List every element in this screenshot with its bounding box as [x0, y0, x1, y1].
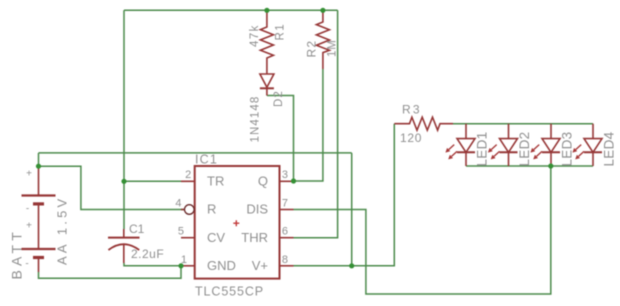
- wire V+ long horizontal from battery to V+ vertical: [39, 152, 352, 154]
- svg-text:8: 8: [282, 254, 288, 266]
- svg-text:C1: C1: [129, 222, 145, 236]
- wire top corner down to THR: [294, 10, 338, 237]
- pin 8 stub: [280, 265, 294, 267]
- pin 6 stub: [280, 237, 294, 239]
- LED1: [457, 124, 475, 166]
- svg-text:5: 5: [178, 226, 184, 238]
- svg-text:LED1: LED1: [475, 132, 490, 167]
- svg-text:CV: CV: [207, 230, 225, 245]
- wire top net TR/THR horizontal: [124, 9, 338, 11]
- svg-text:GND: GND: [207, 258, 236, 273]
- svg-text:D2: D2: [273, 90, 285, 107]
- LED2: [500, 124, 518, 166]
- wire left vertical from top wire to TR node: [123, 10, 125, 181]
- svg-text:TR: TR: [207, 174, 224, 189]
- resistor R1: [260, 10, 273, 74]
- wire battery plus up: [38, 153, 40, 166]
- pin 4 stub: [181, 209, 184, 211]
- svg-text:IC1: IC1: [195, 152, 218, 166]
- wire DIS to LED cathodes: [294, 166, 551, 294]
- wire TR node to pin2: [124, 180, 181, 182]
- wire V+ vertical branch: [351, 153, 353, 266]
- svg-text:1N4148: 1N4148: [250, 96, 262, 143]
- pin 7 stub: [280, 209, 294, 211]
- resistor R3: [394, 117, 453, 130]
- junction dot V+ node: [349, 263, 354, 268]
- pin 4 inversion circle: [185, 205, 195, 215]
- pin 2 stub: [181, 180, 195, 182]
- svg-text:THR: THR: [241, 230, 268, 245]
- svg-text:4: 4: [175, 198, 181, 210]
- svg-text:1M: 1M: [327, 39, 339, 57]
- svg-text:+: +: [26, 221, 32, 232]
- wire reset branch battery to pin4: [39, 166, 185, 209]
- capacitor C1: [123, 229, 125, 238]
- svg-text:AA 1.5V: AA 1.5V: [55, 196, 70, 265]
- junction dot Q node: [291, 178, 296, 183]
- junction dot top R2: [320, 8, 325, 13]
- wire GND return to battery minus: [39, 266, 182, 279]
- pin 1 stub: [181, 265, 195, 267]
- wire V+ pin8 to R3: [294, 124, 395, 266]
- svg-text:Q: Q: [258, 174, 268, 189]
- svg-text:LED2: LED2: [517, 132, 532, 167]
- pin 3 stub: [280, 180, 294, 182]
- svg-text:LED3: LED3: [560, 132, 575, 167]
- svg-text:R1: R1: [275, 23, 287, 41]
- junction dot top R1: [264, 8, 269, 13]
- svg-text:V+: V+: [252, 258, 268, 273]
- svg-text:1: 1: [181, 254, 187, 266]
- svg-text:TLC555CP: TLC555CP: [195, 285, 264, 299]
- pin 5 stub: [181, 237, 195, 239]
- svg-text:R3: R3: [402, 103, 422, 117]
- svg-text:-: -: [25, 259, 28, 270]
- svg-text:R: R: [207, 202, 216, 217]
- svg-text:-: -: [26, 204, 29, 215]
- svg-text:3: 3: [282, 169, 288, 181]
- wire TR node down to C1: [123, 181, 125, 229]
- diode D2: [260, 74, 274, 87]
- IC origin cross: [233, 220, 239, 226]
- wire LED anode rail: [453, 123, 593, 125]
- battery BATT: [38, 166, 40, 195]
- svg-text:LED4: LED4: [602, 131, 617, 166]
- svg-text:2.2uF: 2.2uF: [131, 247, 164, 261]
- svg-text:7: 7: [282, 198, 288, 210]
- svg-text:DIS: DIS: [246, 202, 268, 217]
- junction dot TR node: [121, 179, 126, 184]
- LED3: [542, 124, 560, 166]
- svg-text:BATT: BATT: [9, 228, 25, 280]
- wire LED cathode rail: [466, 165, 593, 167]
- LED4: [584, 124, 602, 166]
- svg-text:47k: 47k: [249, 24, 261, 47]
- wire D2 cathode to Q node: [267, 96, 294, 182]
- wire Q node to R2 bottom: [294, 69, 323, 181]
- resistor R2: [316, 10, 329, 69]
- wire C1 bottom to GND pin1: [124, 263, 181, 266]
- junction dot GND node: [178, 263, 183, 268]
- junction dot LED cathode node: [548, 163, 553, 168]
- junction dot battery plus: [36, 164, 41, 169]
- svg-text:+: +: [26, 169, 32, 180]
- svg-text:120: 120: [400, 131, 422, 145]
- svg-text:R2: R2: [305, 40, 319, 58]
- op-amp-style IC box U1 TLC555: [195, 166, 280, 279]
- svg-text:6: 6: [282, 226, 288, 238]
- svg-text:2: 2: [185, 169, 191, 181]
